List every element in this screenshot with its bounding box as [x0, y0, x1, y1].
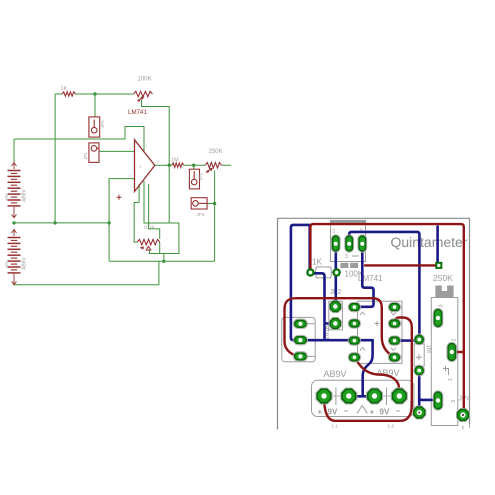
svg-text:7: 7 — [146, 145, 148, 149]
silk IC LM741 DIP8 — [358, 301, 403, 363]
pin outline 250K pads — [433, 308, 443, 327]
wire JP1 to inverting input — [99, 150, 134, 152]
trace red main rail — [310, 224, 463, 409]
battery AB9V lower — [8, 229, 21, 285]
trace blue IC to 1M top — [395, 339, 420, 342]
pad IC row 1 col 1 — [349, 304, 359, 311]
svg-text:3: 3 — [129, 174, 131, 178]
svg-text:JP2: JP2 — [100, 120, 105, 128]
silk 100K pot box — [331, 221, 366, 262]
battery AB9V upper — [8, 162, 21, 218]
pad 100K pin 3 — [359, 236, 366, 251]
opamp pin marks — [129, 145, 159, 179]
100K wiper arrow — [140, 96, 144, 100]
junction — [162, 260, 165, 263]
trace red trimpot to IC — [285, 298, 395, 357]
trace red battery loop — [324, 318, 412, 421]
svg-text:1M: 1M — [425, 345, 431, 353]
pad IC row 2 col 1 — [349, 320, 359, 327]
pad 250K pin 2 — [448, 344, 455, 361]
potentiometer 100K — [134, 91, 153, 96]
svg-text:3: 3 — [439, 304, 445, 307]
pin outline JP2 pads — [329, 300, 341, 312]
svg-text:Quintameter: Quintameter — [390, 234, 467, 250]
svg-text:100K: 100K — [138, 77, 152, 83]
junction — [93, 92, 96, 95]
junction — [107, 221, 110, 224]
op-amp U1 LM741 triangle — [135, 140, 155, 192]
trimpot wiper screw — [146, 246, 151, 250]
wire 250K wiper vertical — [214, 171, 216, 262]
svg-text:1-2: 1-2 — [388, 424, 395, 429]
pin outline JP3 JP4 — [413, 406, 426, 419]
pad 1K pin 2 — [333, 269, 340, 276]
silk 250K pot — [431, 298, 458, 426]
svg-text:1: 1 — [448, 378, 454, 381]
svg-text:6: 6 — [157, 161, 159, 165]
silk JP2 — [329, 301, 343, 330]
trace blue IC to battery bridge — [363, 340, 373, 394]
silk trimpot 101K left — [282, 317, 315, 361]
pad 1M pin 1 — [415, 335, 423, 343]
junction — [168, 164, 171, 167]
silk JP4 tick — [463, 424, 470, 429]
svg-text:101K: 101K — [144, 225, 156, 231]
svg-text:-9V: -9V — [4, 261, 9, 268]
pad IC row 3 col 2 — [390, 337, 400, 344]
wire opamp pin1 to trimpot left — [134, 203, 139, 243]
trace blue 100K pad2 to 1M — [349, 232, 419, 340]
svg-text:−: − — [396, 407, 401, 416]
svg-text:3: 3 — [451, 400, 457, 403]
trace blue via feed — [436, 227, 439, 263]
svg-text:4: 4 — [140, 165, 142, 169]
svg-text:3: 3 — [345, 254, 348, 260]
trace blue 100K pad1 to 1K to JP2 — [334, 244, 337, 307]
svg-text:1K: 1K — [61, 86, 68, 92]
trace red to via — [365, 264, 437, 266]
pad battery pin 4 — [393, 389, 407, 403]
jumper JP3 body — [189, 169, 199, 189]
trace blue 1K to row3 rail — [310, 273, 335, 340]
wire opamp pin5 to trimpot right — [149, 184, 160, 239]
pad IC row 4 col 2 — [390, 354, 400, 361]
svg-text:250K: 250K — [209, 149, 223, 155]
svg-text:1: 1 — [333, 229, 336, 235]
pad 250K pin 3 — [434, 310, 441, 327]
resistor 1M — [172, 163, 184, 167]
pin outline 100K pads — [331, 235, 340, 252]
trace red 250K pad2 to rail — [452, 351, 464, 353]
plus symbol near opamp — [117, 195, 122, 200]
wire battery1 top — [13, 139, 15, 162]
trimpot 101K — [137, 239, 159, 245]
junction — [12, 221, 15, 224]
svg-text:AB9V: AB9V — [324, 369, 347, 379]
pad 1M pin 2 — [415, 366, 423, 374]
jumper JP2 body — [89, 117, 100, 137]
wire noninverting input — [109, 179, 134, 261]
wire bottom net — [109, 260, 215, 262]
pad 250K pin 1 — [434, 392, 441, 409]
pad 1K pin 1 — [307, 269, 314, 276]
trace blue 100K pad3 to IC pin — [354, 243, 373, 306]
pad JP3 — [414, 407, 425, 418]
wire output net — [155, 164, 231, 166]
pad 100K pin 2 — [346, 236, 353, 251]
wire node 1K to pot — [55, 94, 133, 117]
pad battery pin 3 — [368, 389, 382, 403]
pad trimpot pin 2 — [295, 337, 307, 344]
resistor R 1K — [62, 92, 76, 96]
wire V+ rail top — [14, 127, 144, 153]
pad battery pin 2 — [342, 389, 356, 403]
pin outline 1M pads — [414, 334, 425, 345]
pad trimpot pin 3 — [295, 353, 307, 360]
svg-text:JP3: JP3 — [199, 173, 204, 181]
pad IC row 4 col 1 — [349, 354, 359, 361]
svg-text:2: 2 — [452, 338, 458, 341]
svg-text:1M: 1M — [171, 158, 179, 164]
junction — [53, 221, 56, 224]
trace blue left rail — [291, 225, 373, 340]
trace blue 1M to JP3 and 250K — [419, 371, 435, 410]
svg-text:1-1: 1-1 — [332, 424, 339, 429]
wire trimpot right lead loop — [160, 242, 164, 261]
wire ground rail — [14, 222, 109, 224]
pad JP2 pin 2 — [330, 319, 340, 329]
jumper JP1 body — [89, 143, 99, 163]
svg-text:9V: 9V — [328, 408, 338, 417]
svg-text:9V: 9V — [380, 408, 390, 417]
silk 1M resistor — [414, 344, 424, 366]
wire opamp pin4 down — [144, 181, 169, 223]
board outline — [278, 218, 470, 429]
wire JP3 stub — [193, 165, 195, 169]
svg-text:2: 2 — [129, 147, 131, 151]
jumper JP4 body — [191, 198, 207, 209]
trimpot wiper arrow — [140, 246, 144, 249]
wire 100K wiper to output — [142, 100, 170, 166]
pad 100K pin 1 — [332, 236, 339, 251]
wire JP4 stub — [207, 203, 215, 205]
trace blue under red at 1K column — [308, 226, 311, 271]
potentiometer 250K — [205, 163, 221, 168]
pad IC row 3 col 1 — [349, 337, 359, 344]
pin outline battery pads — [316, 388, 332, 404]
silk 1K resistor — [314, 272, 333, 274]
pad battery pin 1 — [317, 389, 331, 403]
trace blue battery bridge — [349, 395, 375, 398]
silk battery holder — [312, 380, 414, 416]
pin outline IC pads — [348, 302, 361, 311]
svg-text:AB9V: AB9V — [22, 257, 28, 270]
pad JP2 pin 1 — [330, 302, 340, 312]
svg-text:+: + — [370, 408, 375, 417]
wire opamp pin1 stub — [138, 184, 140, 203]
pad IC row 1 col 2 — [390, 304, 400, 311]
svg-text:+: + — [318, 408, 323, 417]
svg-text:−: − — [344, 407, 349, 416]
junction — [213, 202, 216, 205]
250K wiper arrow — [209, 168, 213, 172]
wire 1K left rail — [54, 94, 56, 223]
junction — [192, 164, 195, 167]
svg-text:1K: 1K — [312, 258, 322, 267]
trace red IC to battery pad4 — [355, 357, 399, 396]
svg-text:250K: 250K — [433, 273, 453, 283]
pad trimpot pin 1 — [295, 320, 307, 327]
pad IC row 2 col 2 — [390, 320, 400, 327]
svg-text:JP1: JP1 — [83, 152, 88, 160]
pin outline trimpot pads — [293, 319, 307, 329]
svg-text:+9V: +9V — [4, 193, 9, 201]
svg-text:AB9V: AB9V — [22, 189, 28, 202]
svg-text:JP4: JP4 — [197, 212, 205, 217]
via — [436, 263, 442, 269]
pad JP4 — [458, 410, 469, 421]
wire output feedback to wiper — [149, 165, 179, 253]
svg-text:LM741: LM741 — [128, 109, 147, 116]
wire battery2 bottom loop — [14, 261, 159, 285]
